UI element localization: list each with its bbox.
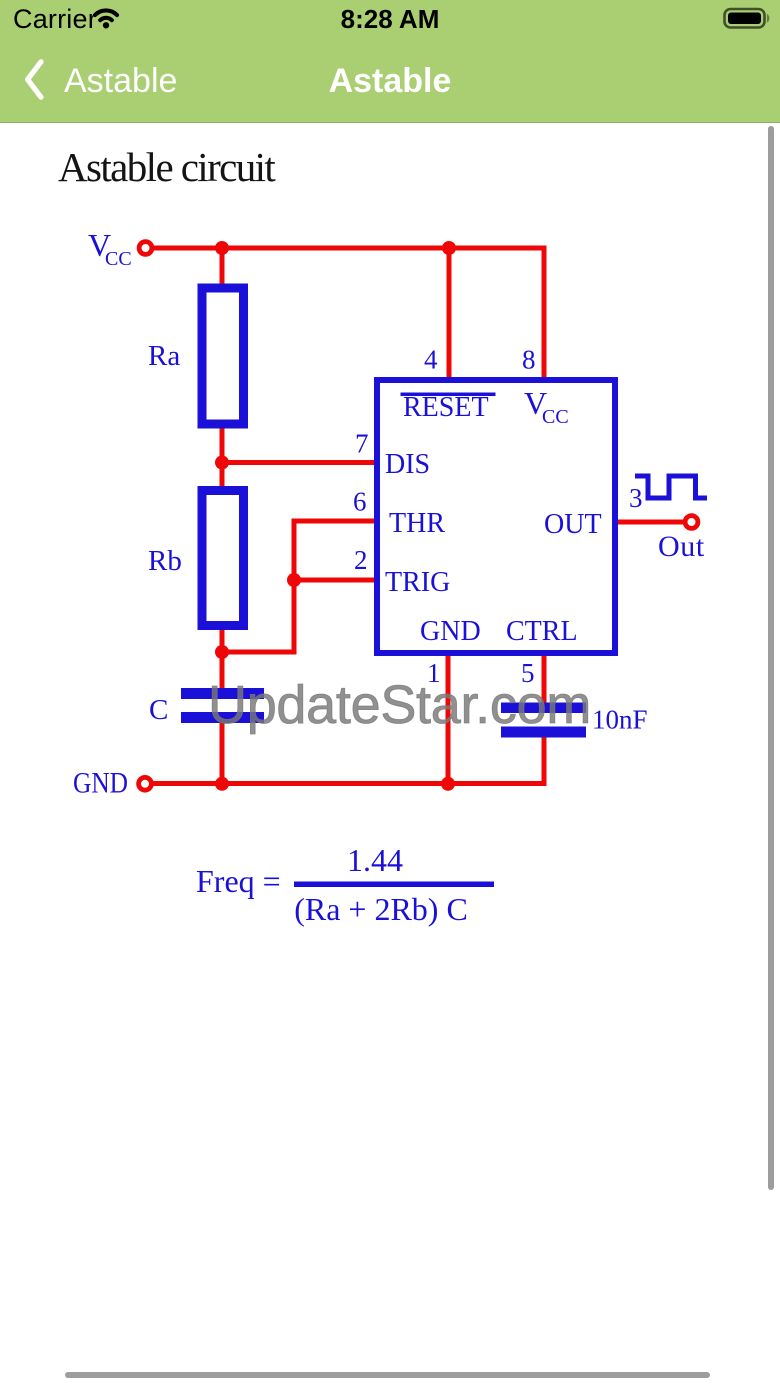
svg-text:4: 4: [424, 345, 438, 375]
page title: [58, 143, 274, 191]
label 10nF: [592, 705, 648, 735]
terminal GND: [139, 777, 152, 790]
pin number 6: [353, 487, 367, 517]
status: carrier name: [13, 4, 97, 35]
resistor Ra: [202, 288, 244, 424]
IC pin label CTRL: [506, 616, 578, 647]
label C: [149, 694, 168, 726]
pin number 5: [521, 658, 535, 688]
label Ra: [148, 340, 180, 372]
header green bar: [0, 0, 780, 123]
junction Ra/DIS: [215, 456, 229, 470]
pin number 7: [355, 429, 369, 459]
svg-text:1.44: 1.44: [347, 842, 403, 878]
terminal Out: [685, 516, 698, 529]
wire: pin 4 drop from top rail: [447, 248, 452, 379]
wire: Vcc rail down to Ra top: [220, 248, 225, 288]
wire: pin 1 drop to GND rail: [446, 652, 451, 786]
svg-text:Out: Out: [658, 530, 705, 563]
svg-text:7: 7: [355, 429, 369, 459]
formula numerator 1.44: [347, 842, 403, 878]
pin number 4: [424, 345, 438, 375]
svg-text:TRIG: TRIG: [385, 567, 450, 598]
wire: TRIG pin 2: [294, 578, 378, 583]
svg-text:6: 6: [353, 487, 367, 517]
label GND terminal: [73, 767, 128, 800]
IC pin label Vcc: [524, 385, 569, 428]
horizontal scrollbar: [65, 1372, 710, 1378]
status: battery icon: [722, 7, 774, 29]
junction at pin 4: [442, 241, 456, 255]
label Out: [658, 530, 705, 563]
wire: pin 8 drop from top rail: [542, 248, 547, 380]
svg-text:RESET: RESET: [403, 392, 489, 423]
svg-text:Freq =: Freq =: [196, 863, 281, 899]
status: wifi icon: [90, 7, 122, 29]
resistor Rb: [202, 491, 244, 626]
label Vcc terminal: [88, 227, 132, 270]
wire: Rb bottom corner link: [220, 650, 297, 655]
junction at Vcc/Ra: [215, 241, 229, 255]
IC pin label OUT: [544, 509, 602, 540]
svg-text:Ra: Ra: [148, 340, 180, 372]
wire: Vcc top rail: [150, 246, 547, 251]
wire: GND bottom rail: [150, 781, 547, 786]
svg-text:3: 3: [629, 483, 643, 513]
output square wave symbol: [635, 476, 707, 498]
label Rb: [148, 545, 182, 577]
svg-text:(Ra + 2Rb) C: (Ra + 2Rb) C: [294, 891, 468, 927]
svg-text:DIS: DIS: [385, 449, 430, 480]
pin number 2: [354, 545, 368, 575]
junction Rb bottom: [215, 645, 229, 659]
formula: Freq =: [196, 863, 281, 899]
svg-text:OUT: OUT: [544, 509, 602, 540]
status: time: [0, 4, 780, 35]
capacitor C bottom plate: [181, 712, 264, 723]
pin number 3: [629, 483, 643, 513]
svg-text:GND: GND: [420, 616, 481, 647]
pin number 1: [427, 658, 441, 688]
svg-text:8: 8: [522, 345, 536, 375]
nav back chevron: [24, 59, 50, 101]
svg-text:2: 2: [354, 545, 368, 575]
wire: 10nF bottom plate to GND rail: [542, 733, 547, 786]
formula denominator (Ra + 2Rb) C: [294, 891, 468, 927]
junction pin1/GND rail: [441, 777, 455, 791]
IC 555 timer box: [377, 380, 615, 653]
svg-text:Rb: Rb: [148, 545, 182, 577]
wire: DIS pin 7: [222, 460, 378, 465]
watermark UpdateStar.com: [208, 674, 591, 736]
IC pin label GND: [420, 616, 481, 647]
wire: THR to TRIG vertical: [292, 519, 297, 655]
wire: OUT pin 3: [614, 520, 684, 525]
svg-text:10nF: 10nF: [592, 705, 648, 735]
svg-text:CC: CC: [542, 406, 569, 428]
capacitor 10nF top plate: [501, 703, 586, 714]
IC pin label THR: [389, 508, 445, 539]
wire: C bottom plate to GND rail: [220, 719, 225, 786]
pin number 8: [522, 345, 536, 375]
svg-text:C: C: [149, 694, 168, 726]
IC pin label TRIG: [385, 567, 450, 598]
nav back label: [64, 62, 177, 101]
IC pin label DIS: [385, 449, 430, 480]
wire: Ra bottom to Rb top: [220, 423, 225, 492]
capacitor C top plate: [181, 688, 264, 699]
svg-text:CC: CC: [105, 248, 132, 270]
nav title: [0, 62, 780, 101]
vertical scrollbar: [768, 126, 774, 1190]
svg-text:GND: GND: [73, 767, 128, 800]
svg-text:THR: THR: [389, 508, 445, 539]
svg-text:CTRL: CTRL: [506, 616, 578, 647]
wire: THR pin 6: [294, 519, 378, 524]
IC pin label RESET with overline: [401, 392, 496, 423]
terminal Vcc: [139, 242, 152, 255]
wire: Rb bottom through C to GND rail: [220, 628, 225, 692]
formula fraction bar: [294, 882, 494, 888]
junction TRIG: [287, 573, 301, 587]
wire: pin 5 drop through 10nF to GND rail: [542, 652, 547, 706]
capacitor 10nF bottom plate: [501, 727, 586, 738]
junction C/GND rail: [215, 777, 229, 791]
